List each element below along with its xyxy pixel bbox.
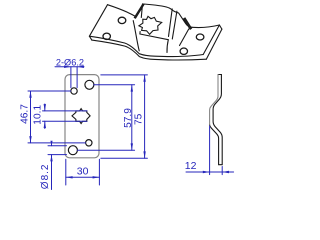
arrow 75 top — [143, 75, 145, 82]
arrow 75 bottom — [143, 151, 145, 158]
dimension 57.9: dimension line — [131, 85, 133, 150]
arrow 57.9 bottom — [131, 143, 133, 150]
isometric view: wing hole upper-left — [118, 17, 126, 23]
svg-text:46.7: 46.7 — [19, 104, 30, 124]
dimension 30: dimension line — [66, 176, 100, 178]
side view: profile outer line — [210, 75, 223, 165]
dimension 2-d6.2: dimension line — [55, 66, 84, 68]
dimension 10.1: extension lines — [43, 111, 88, 121]
front view: plate outline — [65, 75, 99, 158]
front view: bottom big hole — [68, 146, 77, 155]
dimension 12: extension lines — [210, 126, 223, 175]
isometric view: middle flat front edge — [140, 34, 168, 40]
dimensions — [28, 67, 234, 190]
dimension 46.7: dimension line — [30, 91, 32, 143]
isometric view: right end thickness edge — [219, 25, 222, 29]
svg-text:Ø8.2: Ø8.2 — [40, 164, 51, 190]
front view: top small hole — [71, 88, 77, 94]
isometric view: wing hole right-lower — [180, 48, 187, 54]
svg-text:75: 75 — [133, 113, 144, 125]
arrow 2-d6.2 left — [64, 66, 71, 68]
front view: star hole — [72, 109, 90, 124]
dimension d8.2: extension lines — [48, 146, 67, 155]
isometric view: right wing top edge — [192, 25, 219, 28]
arrowheads — [29, 66, 229, 179]
arrow 2-d6.2 right — [77, 66, 84, 68]
dimension 10.1: dimension line — [44, 104, 46, 129]
arrow 10.1 bottom — [44, 121, 46, 128]
isometric view: bottom silhouette (lower bottom line) — [92, 40, 207, 60]
isometric view: right end face outer edge — [206, 29, 222, 59]
dimension 57.9: extension lines — [77, 85, 134, 150]
svg-text:30: 30 — [77, 166, 89, 178]
isometric view: left wing top edge — [108, 5, 136, 17]
isometric view: wing hole right-upper — [196, 34, 204, 40]
svg-text:12: 12 — [185, 160, 197, 172]
arrow 46.7 bottom — [29, 136, 31, 143]
dimension 75: extension lines — [101, 75, 148, 158]
svg-text:57.9: 57.9 — [123, 108, 134, 128]
isometric view: right end inner edge — [203, 25, 219, 55]
arrow 30 left — [66, 176, 73, 178]
dimension 2-d6.2: extension lines — [71, 67, 77, 88]
isometric view: left fold line — [140, 4, 143, 34]
arrow 30 right — [93, 176, 100, 178]
dimension 12: dimension line — [186, 171, 234, 173]
arrow 57.9 top — [131, 85, 133, 92]
isometric view: left end thickness sliver — [89, 36, 91, 40]
isometric view: right wing fold — [180, 29, 189, 46]
arrow 12 left — [203, 171, 210, 173]
front view: top big hole — [85, 80, 94, 89]
svg-text:2-Ø6.2: 2-Ø6.2 — [56, 57, 84, 67]
dimension d8.2: dimension line — [51, 143, 53, 190]
dimension 46.7: extension lines — [28, 91, 86, 143]
arrow 12 right — [222, 171, 229, 173]
isometric view: right fold lines — [169, 9, 177, 39]
isometric view: wing hole lower-left — [103, 33, 110, 39]
isometric view: front top edge (upper bottom line) — [89, 36, 203, 56]
isometric view: star hole — [139, 16, 162, 34]
isometric view: left bend curve on front face — [133, 21, 139, 51]
isometric view: right ramp thickness band — [183, 18, 191, 30]
side view: profile inner gray line — [210, 75, 218, 125]
isometric view: right bend curve on front face — [167, 40, 168, 53]
dimension 30: extension lines — [66, 159, 100, 185]
isometric view: middle back edge and right ramp silhouette — [144, 4, 193, 27]
arrow d8.2 bottom — [50, 155, 52, 162]
dimension 75: dimension line — [144, 75, 146, 158]
arrow 46.7 top — [29, 91, 31, 98]
svg-text:10.1: 10.1 — [33, 105, 44, 125]
arrow d8.2 top — [50, 141, 52, 146]
front view: bottom small hole — [86, 140, 92, 146]
isometric view: left wing left edge — [89, 5, 107, 37]
arrow 10.1 top — [44, 104, 46, 111]
isometric view: left ramp thickness band — [134, 4, 144, 18]
